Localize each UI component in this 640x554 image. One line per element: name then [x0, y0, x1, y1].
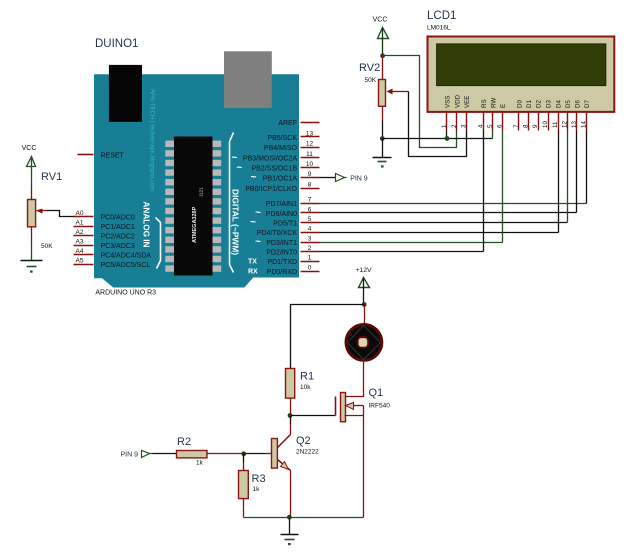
wire arduino pin 7 to LCD	[320, 131, 587, 204]
svg-text:PD7/AIN1: PD7/AIN1	[266, 201, 297, 208]
svg-text:4: 4	[477, 124, 484, 128]
svg-text:VEE: VEE	[464, 96, 471, 108]
wire RV2 bottom pin	[382, 107, 384, 139]
svg-text:R2: R2	[177, 436, 191, 448]
pin 8 PB0/ICP1/CLKO	[245, 182, 319, 194]
svg-text:RW: RW	[491, 98, 498, 108]
pin 4 PD4/T0/XCK	[257, 226, 320, 238]
bracket analog	[156, 218, 161, 269]
svg-text:10: 10	[542, 121, 549, 128]
svg-text:LCD1: LCD1	[427, 10, 456, 22]
svg-text:RS: RS	[481, 99, 488, 108]
node R2/R3/Q2 base	[241, 451, 246, 456]
pin 5 PD5/T1	[273, 216, 319, 228]
svg-text:PIN 9: PIN 9	[121, 452, 139, 459]
svg-text:12: 12	[561, 121, 568, 128]
pin 13 PB5/SCK	[267, 130, 319, 142]
terminal PIN 9 (top)	[336, 174, 368, 183]
LCD pin 4 RS	[477, 99, 488, 130]
ground (rail)	[281, 535, 299, 546]
svg-text:1k: 1k	[196, 460, 204, 467]
svg-text:D1: D1	[526, 100, 533, 108]
svg-text:R3: R3	[252, 473, 266, 485]
LCD pin 14 D7	[580, 100, 591, 131]
pin 6 PD6/AIN0	[266, 206, 320, 218]
wire motor to Q1 drain	[345, 360, 364, 397]
wire R2 to node	[207, 453, 244, 455]
node emitter/rail junction	[287, 515, 292, 520]
svg-text:4: 4	[308, 226, 312, 233]
pin 7 PD7/AIN1	[266, 197, 320, 209]
wire node to Q1 gate	[291, 415, 336, 417]
svg-text:PB3/MOSI/OC2A: PB3/MOSI/OC2A	[243, 156, 297, 163]
pin 10 PB2/SS/OC1B	[251, 161, 319, 173]
svg-text:6: 6	[308, 206, 312, 213]
svg-text:0: 0	[308, 264, 312, 271]
svg-text:D2: D2	[536, 100, 543, 108]
svg-text:9: 9	[532, 124, 539, 128]
IC pins left column	[165, 141, 174, 272]
LCD pin 10 D3	[542, 100, 553, 131]
IC ATMEGA328P	[174, 137, 213, 276]
svg-text:APK-TECH | techno-apk.blogspot: APK-TECH | techno-apk.blogspot.com	[149, 89, 155, 191]
LCD pin 11 D4	[552, 100, 563, 131]
svg-text:A0: A0	[76, 210, 84, 217]
transistor Q2 2N2222	[272, 435, 320, 471]
svg-text:50K: 50K	[41, 243, 53, 250]
LCD pin 12 D5	[561, 100, 572, 131]
svg-text:11: 11	[552, 121, 559, 128]
PWM marks	[231, 152, 261, 247]
power VCC (RV1)	[27, 157, 36, 187]
svg-text:PD5/T1: PD5/T1	[273, 220, 297, 227]
pin A4 PC4/ADC4/SDA	[74, 248, 152, 260]
pin A1 PC1/ADC1	[74, 220, 135, 232]
wire arduino pin 5 to LCD	[320, 131, 568, 223]
wire VCC to LCD VDD	[383, 56, 457, 148]
svg-text:ARDUINO UNO R3: ARDUINO UNO R3	[95, 290, 156, 297]
svg-text:5: 5	[308, 216, 312, 223]
svg-text:A3: A3	[76, 239, 84, 246]
resistor R2 1k	[177, 436, 208, 467]
svg-text:RV1: RV1	[41, 171, 62, 183]
svg-text:E: E	[500, 104, 507, 108]
svg-text:PB4/MISO: PB4/MISO	[264, 145, 298, 152]
wire to ground (RV2)	[382, 139, 384, 158]
svg-text:VDD: VDD	[455, 94, 462, 108]
LCD pin 2 VDD	[451, 94, 462, 130]
svg-text:R1: R1	[300, 371, 314, 383]
svg-text:PD2/INT0: PD2/INT0	[266, 250, 297, 257]
svg-text:PB2/SS/OC1B: PB2/SS/OC1B	[251, 166, 297, 173]
svg-text:ATMEGA328P: ATMEGA328P	[192, 206, 198, 243]
motor	[346, 324, 382, 360]
svg-text:RV2: RV2	[359, 62, 380, 74]
pin AREF AREF	[278, 120, 319, 127]
svg-text:IRF540: IRF540	[369, 403, 391, 410]
ground (RV1)	[21, 261, 43, 273]
power VCC (RV2)	[373, 17, 389, 56]
svg-text:PD6/AIN0: PD6/AIN0	[266, 211, 297, 218]
svg-text:8: 8	[308, 182, 312, 189]
svg-text:11: 11	[306, 151, 313, 158]
svg-text:PD0/RXD: PD0/RXD	[267, 269, 297, 276]
pin 9 PB1/OC1A	[263, 171, 320, 183]
wire node to Q2 base	[244, 453, 272, 455]
svg-text:D3: D3	[546, 100, 553, 108]
svg-text:3: 3	[308, 235, 312, 242]
wire Q1 source to ground rail	[363, 416, 365, 518]
svg-text:PB0/ICP1/CLKO: PB0/ICP1/CLKO	[245, 186, 297, 193]
svg-text:PD3/INT1: PD3/INT1	[266, 240, 297, 247]
svg-text:D7: D7	[584, 100, 591, 108]
svg-text:1k: 1k	[253, 486, 261, 493]
svg-text:5: 5	[487, 124, 494, 128]
wire R1 to node	[290, 399, 292, 416]
svg-text:PB5/SCK: PB5/SCK	[267, 135, 297, 142]
svg-text:D0: D0	[517, 100, 524, 108]
svg-text:LM016L: LM016L	[427, 25, 451, 32]
wire RV2 wiper to LCD VEE	[397, 92, 467, 157]
svg-text:PD1/TXD: PD1/TXD	[267, 259, 297, 266]
svg-text:~: ~	[255, 237, 261, 248]
LCD pin 5 RW	[487, 98, 498, 131]
wire arduino pin 4 to LCD	[320, 131, 559, 233]
IC pins right column	[213, 141, 222, 272]
pin 3 PD3/INT1	[266, 235, 319, 247]
power +12V	[355, 267, 372, 305]
node GND junction at RV2	[380, 136, 385, 141]
svg-text:A1: A1	[76, 220, 84, 227]
svg-text:PIN 9: PIN 9	[350, 175, 368, 182]
svg-text:1121: 1121	[199, 187, 204, 197]
svg-text:~: ~	[251, 172, 257, 183]
USB connector	[224, 51, 272, 108]
power jack	[109, 65, 142, 122]
svg-text:PC5/ADC5/SCL: PC5/ADC5/SCL	[101, 262, 151, 269]
wire RV1 bottom to ground	[31, 243, 33, 261]
svg-text:DIGITAL (~PWM): DIGITAL (~PWM)	[231, 189, 241, 255]
svg-text:Q2: Q2	[296, 435, 311, 447]
pin A2 PC2/ADC2	[74, 229, 135, 241]
svg-text:D6: D6	[575, 100, 582, 108]
pin 12 PB4/MISO	[264, 141, 320, 153]
svg-text:VSS: VSS	[445, 96, 452, 108]
wire RV1 bottom pin	[31, 227, 33, 243]
board body	[94, 74, 299, 287]
svg-text:2: 2	[451, 124, 458, 128]
pin A5 PC5/ADC5/SCL	[74, 257, 151, 269]
node +12V junction	[362, 302, 367, 307]
svg-text:~: ~	[250, 217, 256, 228]
wire terminal to R2	[153, 453, 177, 455]
svg-text:PC1/ADC1: PC1/ADC1	[101, 224, 135, 231]
pin 11 PB3/MOSI/OC2A	[243, 151, 320, 163]
svg-text:13: 13	[571, 121, 578, 128]
svg-text:2N2222: 2N2222	[296, 449, 319, 456]
svg-text:10k: 10k	[300, 384, 311, 391]
wire arduino pin 2 to LCD	[320, 131, 484, 252]
svg-text:7: 7	[513, 124, 520, 128]
node VSS junction	[445, 136, 450, 141]
svg-text:DUINO1: DUINO1	[95, 38, 138, 50]
svg-text:ANALOG IN: ANALOG IN	[142, 202, 151, 248]
LCD pin 7 D0	[513, 100, 524, 131]
svg-text:PC4/ADC4/SDA: PC4/ADC4/SDA	[101, 252, 152, 259]
LCD pin 9 D2	[532, 100, 543, 131]
wire RV2 top pin	[382, 56, 384, 80]
svg-text:2: 2	[308, 245, 312, 252]
ground (RV2)	[373, 158, 392, 168]
wire pin9 to terminal	[320, 177, 336, 179]
svg-text:PC0/ADC0: PC0/ADC0	[101, 215, 135, 222]
wire arduino pin 6 to LCD	[320, 131, 577, 213]
terminal PIN 9 (bottom)	[121, 451, 153, 459]
LCD LCD1 LM016L	[427, 10, 614, 112]
svg-text:TX: TX	[248, 259, 257, 266]
wire node to R3	[243, 454, 245, 471]
pin A3 PC3/ADC3	[74, 239, 135, 251]
svg-text:PC2/ADC2: PC2/ADC2	[101, 234, 135, 241]
svg-text:PC3/ADC3: PC3/ADC3	[101, 243, 135, 250]
svg-text:~: ~	[236, 162, 242, 173]
svg-text:3: 3	[460, 124, 467, 128]
svg-text:PD4/T0/XCK: PD4/T0/XCK	[257, 230, 297, 237]
svg-text:1: 1	[308, 255, 312, 262]
svg-text:1: 1	[441, 124, 448, 128]
node R1/Q2/Q1 junction	[288, 413, 293, 418]
svg-text:RESET: RESET	[101, 153, 125, 160]
LCD pin 6 E	[496, 104, 507, 131]
svg-text:12: 12	[306, 141, 314, 148]
svg-text:D5: D5	[565, 100, 572, 108]
LCD pin 13 D6	[571, 100, 582, 131]
wire Q2 collector to node	[290, 416, 292, 435]
LCD pin 3 VEE	[460, 96, 471, 131]
wire rail to ground	[289, 518, 291, 535]
svg-text:VCC: VCC	[373, 17, 388, 24]
LCD pin 1 VSS	[441, 96, 452, 131]
wire R3 to rail	[243, 499, 245, 518]
svg-text:D4: D4	[556, 100, 563, 108]
svg-text:VCC: VCC	[22, 145, 37, 152]
svg-text:14: 14	[580, 121, 587, 128]
svg-text:Q1: Q1	[369, 387, 384, 399]
wire RV1 wiper to A0	[47, 211, 75, 217]
LCD pin 8 D1	[522, 100, 533, 131]
transistor Q1 IRF540	[336, 387, 391, 422]
svg-text:8: 8	[522, 124, 529, 128]
potentiometer RV2	[359, 62, 397, 106]
svg-text:RX: RX	[248, 268, 258, 275]
wire RV1 top pin	[31, 187, 33, 200]
bracket digital	[230, 133, 234, 273]
svg-text:A2: A2	[76, 229, 84, 236]
pin 1 PD1/TXD	[267, 255, 319, 267]
svg-text:~: ~	[255, 208, 261, 219]
svg-text:PB1/OC1A: PB1/OC1A	[263, 176, 298, 183]
wire Q2 emitter to rail	[290, 471, 292, 518]
pin 0 PD0/RXD	[267, 264, 320, 276]
pin A0 PC0/ADC0	[74, 210, 135, 222]
wire arduino pin 3 to LCD	[320, 131, 503, 243]
svg-text:7: 7	[308, 197, 312, 204]
wire GND to LCD VSS and RW	[383, 131, 493, 139]
svg-text:AREF: AREF	[278, 120, 297, 127]
svg-text:10: 10	[306, 161, 314, 168]
pin 2 PD2/INT0	[266, 245, 319, 257]
potentiometer RV1	[22, 145, 63, 250]
svg-text:50K: 50K	[365, 77, 377, 84]
wire +12V to motor	[364, 305, 366, 325]
svg-text:A4: A4	[76, 248, 84, 255]
wire ground rail	[244, 517, 364, 519]
svg-text:9: 9	[308, 171, 312, 178]
svg-text:A5: A5	[76, 257, 84, 264]
resistor R3 1k	[239, 471, 266, 499]
wire +12V to R1	[291, 305, 365, 369]
svg-text:+12V: +12V	[355, 267, 372, 274]
resistor R1 10k	[286, 369, 315, 399]
svg-text:13: 13	[306, 130, 314, 137]
node VCC junction	[380, 53, 385, 58]
svg-text:6: 6	[496, 124, 503, 128]
